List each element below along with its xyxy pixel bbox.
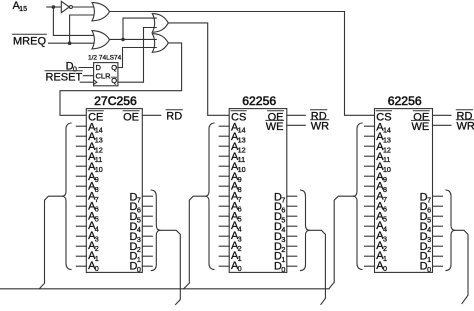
or-gate G2 (A15 + /MREQ) [92, 31, 110, 49]
svg-text:0: 0 [427, 265, 431, 274]
pin A2 of U4 62256 [365, 245, 375, 247]
pin CE of U2 27C256 [88, 111, 103, 123]
pin OE of U4 62256 [413, 111, 429, 123]
svg-text:2: 2 [137, 245, 141, 254]
wire U3 address brace to bus [184, 196, 205, 289]
pin A8 of U4 62256 [365, 185, 375, 187]
pin OE of U2 27C256 [123, 111, 139, 123]
pin A11 of U2 27C256 [76, 155, 86, 157]
svg-text:1: 1 [427, 255, 431, 264]
pin CS of U4 62256 [376, 111, 391, 123]
wire MREQ branch up to OR gate G1 lower input [70, 15, 96, 43]
wire OE to RD label [287, 114, 306, 116]
wire flip-flop /Q to G3 lower input [118, 28, 156, 83]
pin A1 of U4 62256 [365, 255, 375, 257]
data bus brace of U3 62256 [301, 190, 310, 271]
pin A2 of U3 62256 [219, 245, 229, 247]
net label WR at U3 62256 [311, 120, 329, 132]
svg-text:3: 3 [281, 235, 285, 244]
pin A14 of U4 62256 [365, 125, 375, 127]
svg-text:OE: OE [123, 111, 139, 123]
pin D2 of U2 27C256 [142, 245, 152, 247]
flip-flop U5 1/2 74LS74 [94, 63, 118, 86]
pin D7 of U4 62256 [433, 195, 443, 197]
pin A0 of U4 62256 [365, 265, 375, 267]
svg-text:RD: RD [166, 110, 182, 122]
memory chip U2 27C256 [86, 109, 142, 273]
svg-text:62256: 62256 [242, 94, 276, 108]
svg-text:4: 4 [281, 225, 285, 234]
pin A9 of U4 62256 [365, 175, 375, 177]
pin D3 of U3 62256 [287, 235, 297, 237]
pin A1 of U3 62256 [219, 255, 229, 257]
net label RD at U2 27C256 [166, 110, 182, 122]
svg-text:WR: WR [311, 120, 329, 132]
junction A15 branch [52, 5, 56, 9]
inverter U1 on A15 [61, 1, 69, 12]
pin A4 of U3 62256 [219, 225, 229, 227]
junction G2 output branch [121, 38, 125, 42]
wire U2 data brace to data bus off-page [160, 230, 180, 304]
pin D5 of U4 62256 [433, 215, 443, 217]
svg-text:5: 5 [137, 215, 141, 224]
pin A11 of U3 62256 [219, 155, 229, 157]
pin A3 of U3 62256 [219, 235, 229, 237]
pin A13 of U2 27C256 [76, 135, 86, 137]
pin A11 of U4 62256 [365, 155, 375, 157]
net label RD at U4 62256 [457, 110, 473, 122]
wire flip-flop Q to G4 lower input [118, 48, 156, 68]
pin D7 of U2 27C256 [142, 195, 152, 197]
pin A13 of U3 62256 [219, 135, 229, 137]
wire D0 to flip-flop D input [79, 67, 94, 69]
wire G3 output to U3 CS [168, 23, 229, 115]
pin D6 of U3 62256 [287, 205, 297, 207]
address bus rail [0, 288, 329, 290]
svg-text:1: 1 [137, 255, 141, 264]
memory chip U4 62256 [375, 109, 433, 273]
pin D7 of U3 62256 [287, 195, 297, 197]
pin A3 of U4 62256 [365, 235, 375, 237]
pin A6 of U2 27C256 [76, 205, 86, 207]
pin A13 of U4 62256 [365, 135, 375, 137]
pin A10 of U4 62256 [365, 165, 375, 167]
pin A10 of U2 27C256 [76, 165, 86, 167]
wire WE to WR label [433, 124, 452, 126]
pin A5 of U4 62256 [365, 215, 375, 217]
pin A3 of U2 27C256 [76, 235, 86, 237]
wire A15 to inverter [47, 6, 62, 8]
pin WE of U4 62256 [411, 121, 429, 133]
wire clock input stub [80, 81, 93, 83]
svg-text:3: 3 [427, 235, 431, 244]
svg-text:1/2 74LS74: 1/2 74LS74 [88, 54, 122, 61]
svg-text:WR: WR [457, 120, 474, 132]
wire U4 address brace to bus end [329, 196, 353, 289]
label 62256 title [388, 94, 422, 108]
net label D0 [66, 61, 77, 74]
or-gate G4 (G2 + Q) [152, 34, 168, 53]
pin D1 of U2 27C256 [142, 255, 152, 257]
pin A6 of U4 62256 [365, 205, 375, 207]
pin A12 of U2 27C256 [76, 145, 86, 147]
wire U2 address brace to bus [39, 196, 62, 289]
svg-text:27C256: 27C256 [94, 94, 137, 108]
pin A7 of U2 27C256 [76, 195, 86, 197]
junction MREQ branch [68, 41, 72, 45]
svg-text:WE: WE [411, 121, 429, 133]
svg-text:6: 6 [427, 205, 431, 214]
pin D0 of U2 27C256 [142, 265, 152, 267]
pin A9 of U3 62256 [219, 175, 229, 177]
pin A4 of U4 62256 [365, 225, 375, 227]
svg-text:0: 0 [281, 265, 285, 274]
wire RESET to flip-flop CLR input [83, 75, 93, 77]
label 62256 title [242, 94, 276, 108]
svg-text:5: 5 [427, 215, 431, 224]
pin OE of U3 62256 [268, 111, 284, 123]
wire OE to RD label [142, 114, 161, 116]
wire U3 data brace to data bus off-page [310, 230, 326, 304]
pin A12 of U3 62256 [219, 145, 229, 147]
pin D4 of U2 27C256 [142, 225, 152, 227]
svg-text:62256: 62256 [388, 94, 422, 108]
svg-text:3: 3 [137, 235, 141, 244]
pin A14 of U2 27C256 [76, 125, 86, 127]
or-gate G1 (/A15 + /MREQ) [92, 2, 110, 21]
wire OE to RD label [433, 114, 452, 116]
pin A1 of U2 27C256 [76, 255, 86, 257]
svg-text:4: 4 [137, 225, 141, 234]
svg-text:7: 7 [281, 196, 285, 205]
data bus brace of U2 27C256 [151, 190, 160, 271]
address bus brace of U3 62256 [205, 123, 214, 270]
svg-text:RESET: RESET [46, 71, 83, 83]
svg-text:MREQ: MREQ [13, 36, 46, 48]
pin D2 of U4 62256 [433, 245, 443, 247]
svg-text:CLR: CLR [96, 71, 112, 80]
wire inverter output to OR gate G1 upper input [73, 6, 97, 8]
or-gate G3 (G2 + /Q) [152, 14, 168, 33]
svg-text:5: 5 [281, 215, 285, 224]
pin D1 of U4 62256 [433, 255, 443, 257]
pin D3 of U4 62256 [433, 235, 443, 237]
pin WE of U3 62256 [266, 121, 284, 133]
pin D2 of U3 62256 [287, 245, 297, 247]
pin A5 of U2 27C256 [76, 215, 86, 217]
net label WR at U4 62256 [457, 120, 474, 132]
pin A5 of U3 62256 [219, 215, 229, 217]
svg-text:WE: WE [266, 121, 284, 133]
pin D0 of U3 62256 [287, 265, 297, 267]
wire G2 output to G4 upper input [110, 38, 157, 40]
pin A10 of U3 62256 [219, 165, 229, 167]
wire U4 data brace to data bus off-page [455, 230, 468, 303]
pin A0 of U3 62256 [219, 265, 229, 267]
wire WE to WR label [287, 124, 306, 126]
pin D3 of U2 27C256 [142, 235, 152, 237]
pin D1 of U3 62256 [287, 255, 297, 257]
pin A7 of U4 62256 [365, 195, 375, 197]
svg-text:0: 0 [137, 265, 141, 274]
wire A15 branch down to OR gate G2 upper input [53, 7, 96, 35]
wire G2 branch up to G3 upper input [123, 18, 156, 39]
svg-text:1: 1 [281, 255, 285, 264]
pin CS of U3 62256 [231, 111, 246, 123]
pin A12 of U4 62256 [365, 145, 375, 147]
pin A8 of U3 62256 [219, 185, 229, 187]
pin A14 of U3 62256 [219, 125, 229, 127]
data bus brace of U4 62256 [446, 190, 455, 271]
net label RESET [46, 71, 83, 83]
pin D5 of U2 27C256 [142, 215, 152, 217]
svg-text:6: 6 [281, 205, 285, 214]
pin D5 of U3 62256 [287, 215, 297, 217]
net label A15 [13, 0, 28, 13]
pin D6 of U2 27C256 [142, 205, 152, 207]
net label MREQ [13, 36, 46, 48]
pin A2 of U2 27C256 [76, 245, 86, 247]
svg-text:7: 7 [137, 196, 141, 205]
pin A0 of U2 27C256 [76, 265, 86, 267]
svg-text:7: 7 [427, 196, 431, 205]
pin D0 of U4 62256 [433, 265, 443, 267]
svg-text:Q: Q [111, 63, 117, 72]
wire MREQ to OR gate G2 lower input [49, 42, 97, 44]
pin D4 of U4 62256 [433, 225, 443, 227]
pin A7 of U3 62256 [219, 195, 229, 197]
pin A8 of U2 27C256 [76, 185, 86, 187]
pin A4 of U2 27C256 [76, 225, 86, 227]
svg-text:2: 2 [281, 245, 285, 254]
pin D6 of U4 62256 [433, 205, 443, 207]
address bus brace of U4 62256 [353, 123, 362, 270]
svg-text:4: 4 [427, 225, 431, 234]
address bus brace of U2 27C256 [62, 123, 71, 270]
memory chip U3 62256 [229, 109, 287, 273]
net label RD at U3 62256 [311, 110, 327, 122]
label 27C256 title [94, 94, 137, 108]
wire G1 output rail to U4 CS [110, 12, 375, 116]
pin D4 of U3 62256 [287, 225, 297, 227]
pin A6 of U3 62256 [219, 205, 229, 207]
svg-text:2: 2 [427, 245, 431, 254]
pin A9 of U2 27C256 [76, 175, 86, 177]
wire G4 output to U2 CE [60, 43, 182, 115]
svg-text:6: 6 [137, 205, 141, 214]
